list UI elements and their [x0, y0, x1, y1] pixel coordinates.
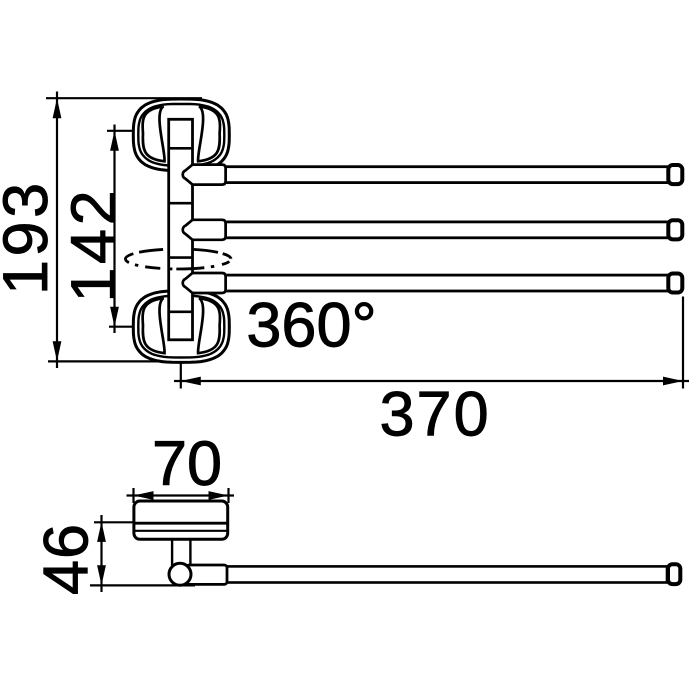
svg-text:46: 46: [32, 523, 102, 595]
svg-text:360°: 360°: [246, 291, 376, 361]
svg-text:142: 142: [59, 187, 129, 303]
svg-text:370: 370: [380, 380, 491, 450]
svg-text:193: 193: [0, 179, 61, 295]
svg-text:70: 70: [152, 429, 222, 499]
